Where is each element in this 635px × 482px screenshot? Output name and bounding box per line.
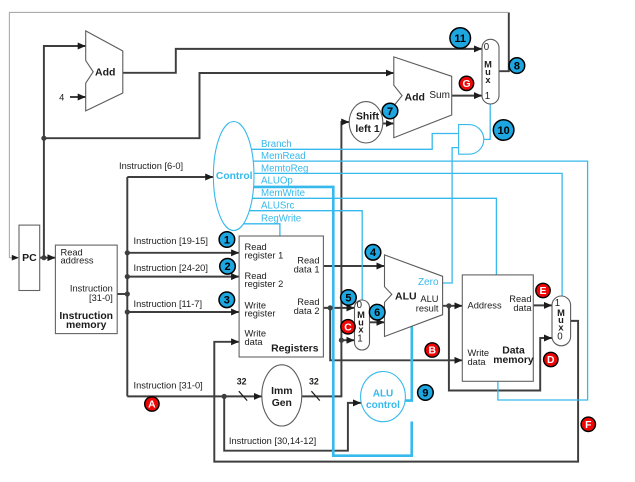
instruction memory box [55,245,117,334]
svg-text:RegWrite: RegWrite [261,214,301,225]
svg-text:register 1: register 1 [245,251,284,261]
svg-text:memory: memory [66,320,107,331]
svg-text:MemRead: MemRead [261,151,306,162]
wire: Read data 2 to Data memory Write data [330,308,462,360]
svg-text:11: 11 [454,33,466,45]
registers box [239,236,323,357]
AND gate [459,125,484,155]
wire: ALUOp control signal to ALU control [234,187,412,456]
imm gen ellipse [262,365,302,426]
wire: Add Sum output to mux8 input 1 [452,95,482,97]
wire: ALU control output to ALU operation input [383,326,412,400]
wire: AND gate output to mux8 select [484,104,490,139]
svg-text:1: 1 [357,334,362,345]
svg-text:register 2: register 2 [245,279,284,289]
svg-text:4: 4 [59,93,64,103]
wire: MemRead control signal to Data memory bottom [234,161,588,400]
svg-text:2: 2 [224,261,230,273]
svg-text:B: B [428,346,436,357]
node 11 [450,28,471,49]
wire: Add output to mux8 input 0 [123,49,482,73]
svg-text:Instruction: Instruction [70,283,113,293]
wire: PC to instruction memory [40,257,56,259]
write-back mux [552,296,571,346]
ALU [385,255,443,337]
svg-text:MemWrite: MemWrite [261,188,305,199]
svg-text:register: register [245,309,276,319]
node E [536,283,550,297]
wire: Instruction [19-15] to Read register 1 [127,252,239,254]
svg-text:Instruction [6-0]: Instruction [6-0] [119,161,183,171]
bus width slash marks [239,391,320,400]
data memory box [462,275,533,381]
wire: Instruction [11-7] to Write register [127,311,239,313]
mux8 (PC source mux) [482,39,499,104]
svg-text:ALUOp: ALUOp [261,176,293,187]
ALU control ellipse [361,372,406,422]
svg-text:Instruction [31-0]: Instruction [31-0] [134,380,203,390]
svg-text:memory: memory [493,355,534,366]
svg-text:Shift: Shift [356,112,380,123]
svg-text:0: 0 [484,42,490,53]
svg-text:data 1: data 1 [294,265,320,275]
wire: PC up to Add [44,46,86,258]
svg-text:data: data [513,303,532,313]
svg-text:ALU: ALU [373,389,394,400]
svg-text:data: data [245,337,264,347]
ALU source mux [355,300,370,350]
node A [145,397,159,411]
wire: Data memory Read data to right mux input 1 [533,304,552,306]
node 2 [220,259,236,275]
wire: constant 4 into Add [70,96,86,98]
wire: MemtoReg control signal to right mux select [234,173,562,296]
svg-text:5: 5 [345,292,351,304]
node 4 [365,245,381,261]
svg-text:32: 32 [237,376,247,386]
adder Add (PC+4) [86,31,123,111]
wire: Imm Gen output up to Shift left 1 [282,122,349,396]
wire: mux8 output to PC loop (gray feedback) [9,12,508,260]
wire: Instruction [31-0] to Imm Gen [127,395,262,397]
node 6 [369,304,385,320]
node B [425,343,439,357]
svg-text:Instruction [11-7]: Instruction [11-7] [134,299,203,309]
svg-text:Gen: Gen [272,398,292,409]
svg-text:32: 32 [309,376,319,386]
svg-text:A: A [148,400,156,411]
node 9 [418,385,434,401]
svg-text:[31-0]: [31-0] [89,293,113,303]
svg-text:Zero: Zero [418,277,439,288]
svg-text:data: data [468,357,487,367]
svg-text:F: F [585,420,591,431]
svg-text:6: 6 [374,307,380,319]
svg-text:Branch: Branch [261,139,292,150]
svg-text:D: D [547,355,555,366]
wire: right mux output write-back to Registers Write data [214,321,578,462]
wire: Shift left 1 output to Add Sum [366,123,394,125]
control ellipse [213,122,254,231]
wire: instruction vertical bus [126,177,128,396]
wire: ALU result to Data memory Address [443,305,463,307]
svg-text:0: 0 [557,332,563,343]
svg-text:C: C [344,323,352,334]
wire: Instruction [24-20] to Read register 2 [127,276,239,278]
svg-text:PC: PC [22,252,37,264]
node C [341,320,355,334]
svg-text:Address: Address [468,301,502,311]
svg-text:control: control [366,400,400,411]
svg-text:9: 9 [422,387,428,399]
svg-text:left 1: left 1 [355,124,379,135]
svg-text:MemtoReg: MemtoReg [261,163,308,174]
wire: PC branch to Add Sum [44,73,394,138]
svg-text:10: 10 [497,125,509,137]
svg-text:E: E [540,286,547,297]
svg-text:Control: Control [216,171,253,182]
svg-text:3: 3 [224,295,230,307]
node 5 [341,290,357,306]
svg-text:Imm: Imm [271,386,292,397]
node F [581,417,595,431]
wire: ALUSrc control signal to ALU mux select [234,211,363,300]
PC register [19,225,40,290]
svg-text:1: 1 [485,91,490,102]
svg-text:4: 4 [370,247,377,259]
svg-text:Registers: Registers [271,344,319,355]
node 10 [493,120,514,141]
wire: Read data 2 to ALU mux input 0 [323,307,354,309]
svg-text:Add: Add [405,92,425,104]
wire: ALU result bypass to right mux input 0 [449,306,552,391]
wire: MemWrite control signal to Data memory top [234,198,497,275]
wire: Read data 1 to ALU [323,265,384,267]
wire: ALU mux output to ALU [370,321,385,323]
wire: Zero output to AND gate [443,148,459,283]
node 8 [509,58,525,74]
svg-text:G: G [462,79,470,90]
svg-text:ALUSrc: ALUSrc [261,200,295,211]
wire: Instruction [6-0] to Control [127,176,213,178]
svg-text:Instruction [30,14-12]: Instruction [30,14-12] [229,436,316,446]
svg-text:result: result [416,303,439,313]
svg-text:7: 7 [387,106,393,118]
wire: Branch control signal to AND gate [234,134,459,150]
svg-text:8: 8 [514,61,520,73]
svg-text:Add: Add [95,67,115,79]
svg-text:ALU: ALU [395,290,417,302]
svg-text:Instruction [19-15]: Instruction [19-15] [134,236,208,246]
node 1 [219,232,235,248]
node D [544,352,558,366]
svg-text:Instruction [24-20]: Instruction [24-20] [134,263,208,273]
node 3 [219,292,235,308]
svg-text:address: address [61,256,94,266]
svg-text:data 2: data 2 [294,306,320,316]
adder Add Sum (branch target) [394,57,452,138]
node 7 [382,103,398,119]
wire: RegWrite control signal to Registers [234,224,280,236]
svg-text:x: x [485,75,491,85]
wire: immediate branch to ALU mux input 1 [341,339,354,341]
svg-text:1: 1 [224,234,230,246]
node G [459,76,473,90]
wire: Instruction [30,14-12] to ALU control [224,396,361,450]
svg-text:Sum: Sum [429,90,450,101]
wire: instruction memory output junction [117,293,127,295]
shift left 1 ellipse [349,102,383,143]
